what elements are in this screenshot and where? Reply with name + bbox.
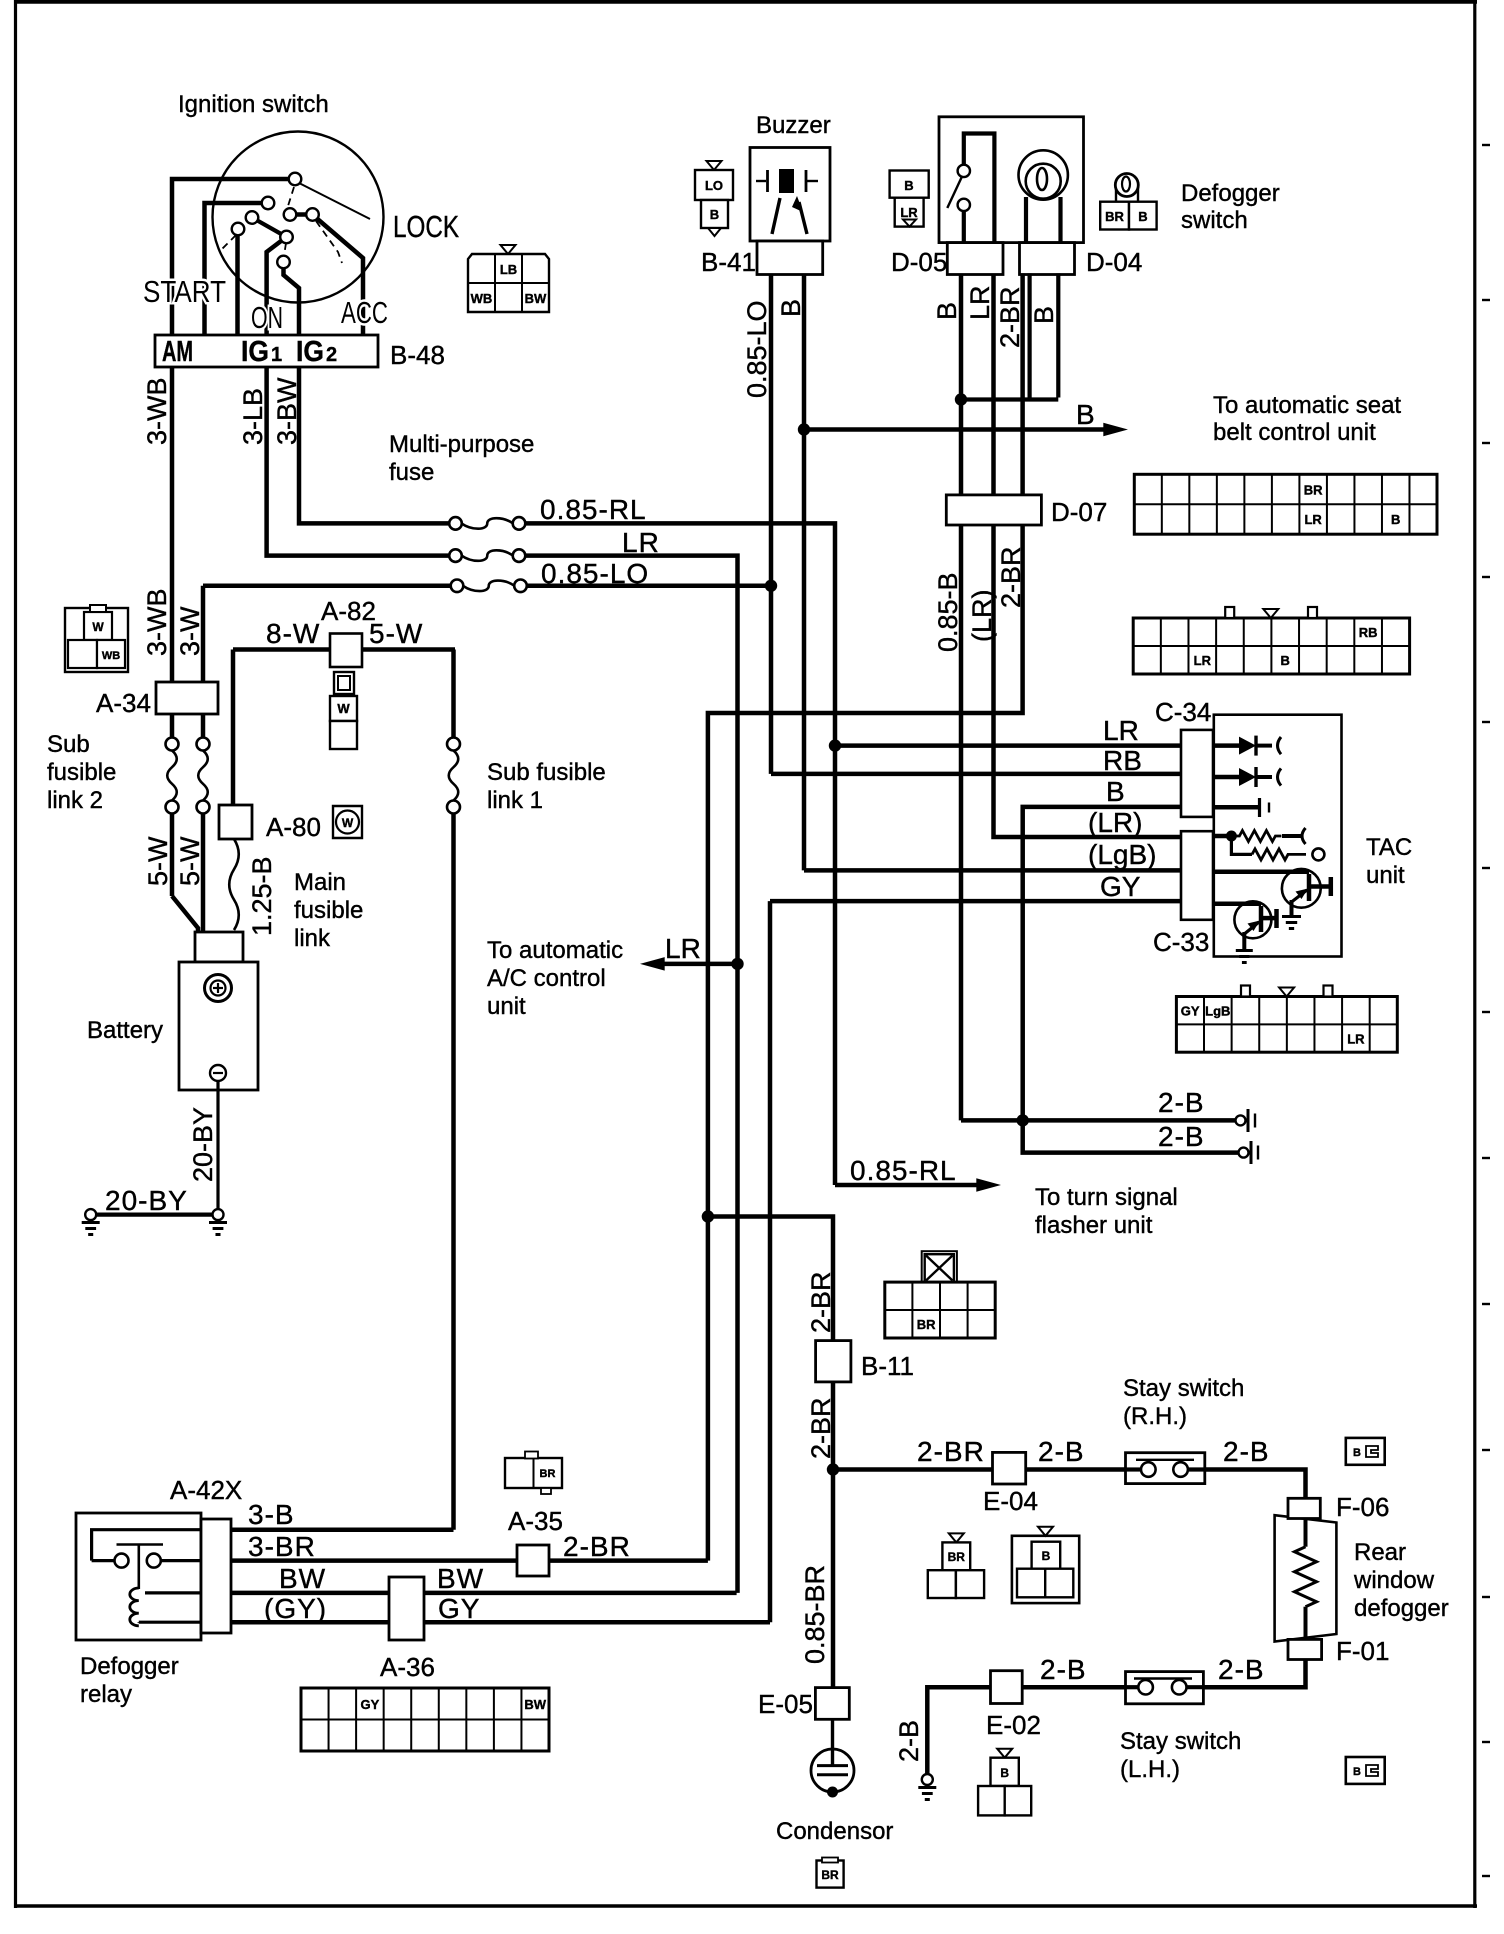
svg-text:BR: BR <box>821 1868 839 1882</box>
wire B feed to TAC <box>1023 807 1239 1153</box>
wire 3-B <box>231 1527 454 1532</box>
svg-text:BR: BR <box>1105 209 1124 224</box>
wire AM from ignition switch to B-48 <box>172 179 295 335</box>
svg-text:unit: unit <box>487 993 526 1020</box>
svg-text:link: link <box>294 925 331 952</box>
svg-text:To automatic seat: To automatic seat <box>1213 392 1401 419</box>
connector symbol BR bottom <box>817 1861 844 1888</box>
stay switch LH <box>1126 1672 1204 1704</box>
defogger switch contact bottom <box>958 199 970 211</box>
svg-text:5-W: 5-W <box>369 618 423 649</box>
wire 0.85-LO from fuse to trunk <box>527 584 771 589</box>
wire 3-W down from fuse corner to A-34 <box>201 586 206 682</box>
svg-text:D-05: D-05 <box>891 247 947 277</box>
condenser <box>831 1719 834 1765</box>
svg-text:Multi-purpose: Multi-purpose <box>389 431 534 458</box>
svg-text:A-42X: A-42X <box>170 1475 242 1505</box>
svg-text:F-06: F-06 <box>1336 1492 1389 1522</box>
svg-text:(LR): (LR) <box>1088 807 1142 838</box>
connector B-48 <box>155 335 378 367</box>
svg-text:2-B: 2-B <box>1038 1436 1085 1467</box>
transistor Q1 in TAC <box>1282 869 1321 908</box>
svg-text:2-BR: 2-BR <box>806 1397 836 1459</box>
svg-text:2-B: 2-B <box>1158 1087 1205 1118</box>
svg-text:3-BR: 3-BR <box>248 1531 316 1562</box>
svg-text:RB: RB <box>1359 625 1378 640</box>
wire 2-B stay switch RH to F-06 <box>1205 1470 1306 1499</box>
svg-text:Main: Main <box>294 869 346 896</box>
svg-text:LO: LO <box>705 178 723 193</box>
wire 2-B E-04 to stay switch RH <box>1026 1467 1126 1472</box>
connector C-34 <box>1181 730 1213 817</box>
svg-text:3-W: 3-W <box>175 606 205 656</box>
wire 2-B F-01 to stay switch LH <box>1203 1660 1305 1688</box>
svg-text:ACC: ACC <box>341 295 388 330</box>
svg-text:2-BR: 2-BR <box>563 1531 631 1562</box>
svg-text:A-35: A-35 <box>508 1506 563 1536</box>
svg-text:LR: LR <box>1347 1031 1365 1046</box>
svg-text:LOCK: LOCK <box>393 209 459 244</box>
svg-text:link 1: link 1 <box>487 787 543 814</box>
diode D2 in TAC <box>1214 775 1239 780</box>
wire 0.85-BR to E-05 <box>831 1470 836 1688</box>
svg-text:B-48: B-48 <box>390 340 445 370</box>
svg-text:E-05: E-05 <box>758 1689 813 1719</box>
wire GY <box>231 1620 770 1625</box>
svg-text:B: B <box>904 178 913 193</box>
ignition switch pointer line to LOCK <box>299 183 370 219</box>
svg-text:Stay switch: Stay switch <box>1123 1375 1244 1402</box>
buzzer capacitor symbol <box>756 180 766 182</box>
svg-text:START: START <box>143 274 226 309</box>
defogger switch contact top <box>964 134 995 243</box>
connector A-80 <box>219 805 252 839</box>
svg-text:3-WB: 3-WB <box>142 589 172 657</box>
defogger switch lamp <box>1018 150 1067 199</box>
svg-text:0.85-LO: 0.85-LO <box>541 558 649 589</box>
svg-text:LR: LR <box>665 933 701 964</box>
wire B loop from D-04 <box>1027 273 1031 397</box>
svg-text:B: B <box>1353 1766 1361 1778</box>
svg-text:2-B: 2-B <box>1218 1654 1265 1685</box>
svg-text:2-B: 2-B <box>1158 1121 1205 1152</box>
2-B upper ground terminal <box>1236 1115 1246 1125</box>
svg-text:3-LB: 3-LB <box>238 388 268 445</box>
ignition switch contacts <box>289 173 302 186</box>
connector A-42X bar <box>201 1519 231 1633</box>
svg-text:0.85-RL: 0.85-RL <box>850 1155 957 1186</box>
stay switch RH <box>1126 1453 1205 1484</box>
diode D1 in TAC <box>1214 743 1239 748</box>
wire B to automatic seat belt control unit <box>804 427 1114 432</box>
connector F-01 <box>1288 1639 1322 1659</box>
connector E-05 <box>815 1688 849 1720</box>
svg-text:Battery: Battery <box>87 1017 163 1044</box>
junction LR feed on 0.85-RL trunk <box>829 739 841 751</box>
svg-text:fusible: fusible <box>294 897 363 924</box>
wire ignition contact to B-48 (third) <box>235 232 240 335</box>
svg-text:link 2: link 2 <box>47 787 103 814</box>
svg-text:0.85-B: 0.85-B <box>933 572 963 652</box>
svg-text:Buzzer: Buzzer <box>756 112 831 139</box>
connector A-34 <box>156 682 218 714</box>
buzzer sounder symbol <box>772 198 780 234</box>
svg-text:To automatic: To automatic <box>487 937 623 964</box>
svg-text:ON: ON <box>251 300 283 335</box>
wire LgB feed to TAC <box>804 868 1184 873</box>
svg-text:0.85-BR: 0.85-BR <box>800 1565 830 1664</box>
svg-text:BR: BR <box>917 1317 936 1332</box>
svg-text:F-01: F-01 <box>1336 1636 1389 1666</box>
wire 2-BR from D-04 down <box>708 273 1023 1560</box>
svg-text:(LgB): (LgB) <box>1088 839 1156 870</box>
wire 2-B E-02 to stay switch LH <box>1022 1685 1125 1690</box>
wire IG2 <box>284 266 300 335</box>
wire 0.85-RL from fuse to trunk <box>526 523 836 1185</box>
ignition switch dashed positions <box>222 187 342 263</box>
svg-text:LR: LR <box>622 527 660 558</box>
connector pin A-82 <box>334 672 354 694</box>
svg-text:B-11: B-11 <box>861 1351 914 1381</box>
svg-text:Stay switch: Stay switch <box>1120 1728 1241 1755</box>
wire GY trunk <box>768 901 773 1622</box>
wire RB feed to TAC <box>771 772 1184 777</box>
connector symbol LB WB BW <box>501 245 516 254</box>
svg-text:A/C control: A/C control <box>487 965 606 992</box>
connector D-07 bar <box>946 495 1041 525</box>
connector symbol BC lower <box>1346 1757 1385 1784</box>
resistor network in TAC <box>1214 834 1232 839</box>
buzzer box <box>750 148 830 242</box>
connector C-33 <box>1181 831 1213 920</box>
junction E-04 branch <box>827 1463 839 1475</box>
svg-text:flasher unit: flasher unit <box>1035 1212 1153 1239</box>
svg-text:3-WB: 3-WB <box>142 378 172 446</box>
svg-text:defogger: defogger <box>1354 1595 1449 1622</box>
svg-text:unit: unit <box>1366 862 1405 889</box>
svg-text:Sub: Sub <box>47 731 90 758</box>
junction 0.85-LO trunk <box>765 580 777 592</box>
connector symbol BR above A-35 <box>505 1458 562 1488</box>
svg-text:C-34: C-34 <box>1155 697 1211 727</box>
svg-text:2-BR: 2-BR <box>996 546 1026 608</box>
svg-text:GY: GY <box>360 1697 379 1712</box>
connector A-36 <box>389 1577 424 1640</box>
svg-text:E-02: E-02 <box>986 1710 1041 1740</box>
wire 8-W 5-W <box>233 647 455 652</box>
svg-text:switch: switch <box>1181 207 1248 234</box>
wire BW <box>231 1591 737 1596</box>
wire 0.85-RL to turn signal flasher <box>835 1183 988 1188</box>
wire 0.85-LO buzzer to RB feed <box>769 275 774 774</box>
svg-text:1.25-B: 1.25-B <box>247 856 277 936</box>
wire 3-BW to fuse 1 <box>299 367 449 523</box>
svg-text:5-W: 5-W <box>175 836 205 886</box>
svg-text:IG: IG <box>296 336 324 368</box>
sub fusible link 2 left <box>170 714 175 738</box>
svg-text:(LR): (LR) <box>967 590 997 643</box>
wire B from buzzer <box>802 275 807 871</box>
wire 2-BR below B-11 <box>831 1382 836 1470</box>
ground B in TAC <box>1214 805 1258 810</box>
connector symbol lamp BR B <box>1116 188 1138 202</box>
svg-text:relay: relay <box>80 1681 132 1708</box>
relay coil wires <box>145 1591 201 1594</box>
svg-text:WB: WB <box>471 291 493 306</box>
svg-text:(R.H.): (R.H.) <box>1123 1403 1187 1430</box>
svg-text:LR: LR <box>1194 653 1212 668</box>
svg-text:AM: AM <box>162 336 193 368</box>
wire LR from fuse to trunk <box>526 556 738 1593</box>
svg-text:LB: LB <box>500 262 517 277</box>
connector symbol W <box>333 806 362 838</box>
connector E-02 <box>991 1671 1023 1704</box>
defogger switch lamp leads <box>1024 197 1028 243</box>
svg-text:BW: BW <box>279 1563 326 1594</box>
multi-purpose fuse 2 <box>449 549 462 562</box>
svg-text:A-80: A-80 <box>266 812 321 842</box>
svg-text:B-41: B-41 <box>701 247 756 277</box>
connector symbol BR mid <box>949 1533 964 1542</box>
connector A-35 <box>517 1545 549 1576</box>
svg-text:B: B <box>776 299 806 317</box>
svg-text:Defogger: Defogger <box>80 1653 179 1680</box>
svg-text:E-04: E-04 <box>983 1486 1038 1516</box>
svg-text:2-B: 2-B <box>894 1720 924 1762</box>
svg-text:B: B <box>1042 1549 1051 1563</box>
main fusible link wire 1.25-B <box>229 839 239 930</box>
svg-text:2: 2 <box>326 344 337 366</box>
svg-text:B: B <box>710 207 719 222</box>
svg-text:fusible: fusible <box>47 759 116 786</box>
wire 2-B E-02 to ground <box>927 1687 990 1774</box>
svg-text:LR: LR <box>965 285 995 320</box>
wire LR feed to TAC <box>835 743 1184 748</box>
transistor Q2 in TAC <box>1234 901 1271 938</box>
connector A-82 <box>330 634 362 668</box>
svg-text:2-BR: 2-BR <box>995 286 1025 348</box>
multi-purpose fuse 1 <box>449 517 462 530</box>
svg-text:GY: GY <box>1181 1003 1200 1018</box>
sub fusible link 1 <box>447 738 460 751</box>
ground left of battery <box>85 1209 96 1220</box>
svg-text:B: B <box>1138 209 1147 224</box>
svg-text:BR: BR <box>1304 482 1323 497</box>
svg-text:2-BR: 2-BR <box>917 1436 985 1467</box>
connector symbol B mid <box>1012 1536 1079 1603</box>
wire GY feed to TAC <box>770 899 1184 904</box>
svg-text:B: B <box>1391 512 1400 527</box>
svg-text:B: B <box>932 302 962 320</box>
svg-text:IG: IG <box>241 336 269 368</box>
resistor 2 in TAC <box>1231 836 1252 854</box>
connector F-06 <box>1288 1498 1320 1518</box>
svg-text:fuse: fuse <box>389 459 434 486</box>
wire ignition contact to B-48 (second) <box>205 203 269 335</box>
connector symbol LO B <box>707 161 722 170</box>
svg-text:8-W: 8-W <box>266 618 320 649</box>
svg-text:0.85-LO: 0.85-LO <box>742 300 772 398</box>
connector D-04 bar <box>1020 243 1075 275</box>
svg-text:window: window <box>1353 1567 1435 1594</box>
svg-text:2-B: 2-B <box>1040 1654 1087 1685</box>
svg-text:B: B <box>1029 306 1059 324</box>
svg-text:B: B <box>1106 776 1125 807</box>
svg-text:LR: LR <box>1304 512 1322 527</box>
svg-text:B: B <box>1281 653 1290 668</box>
svg-text:5-W: 5-W <box>143 836 173 886</box>
svg-text:D-07: D-07 <box>1051 497 1107 527</box>
svg-text:WB: WB <box>102 650 120 662</box>
svg-text:A-82: A-82 <box>321 596 376 626</box>
svg-text:Rear: Rear <box>1354 1539 1406 1566</box>
wire B from D-05 down (0.85-B) <box>959 275 964 1121</box>
ignition switch contact segment <box>252 218 287 238</box>
wire 2-B upper ground <box>961 1118 1236 1123</box>
svg-text:Ignition switch: Ignition switch <box>178 91 329 118</box>
wire 2-BR to E-04 <box>833 1467 993 1472</box>
svg-text:(GY): (GY) <box>264 1593 327 1624</box>
svg-text:BW: BW <box>524 1697 546 1712</box>
connector symbol B lower <box>997 1749 1012 1758</box>
svg-text:To turn signal: To turn signal <box>1035 1184 1178 1211</box>
svg-text:A-36: A-36 <box>380 1652 435 1682</box>
defogger switch blade <box>947 177 961 208</box>
wire 3-BR to A-35 <box>231 1558 517 1563</box>
junction LR to AC unit <box>731 958 743 970</box>
svg-text:2-B: 2-B <box>1223 1436 1270 1467</box>
connector symbol BC upper <box>1346 1438 1385 1465</box>
junction B loop <box>955 393 967 405</box>
battery connector bar <box>195 932 243 962</box>
svg-text:1: 1 <box>271 344 282 366</box>
sub fusible link 2 right <box>201 714 206 738</box>
svg-text:Defogger: Defogger <box>1181 180 1280 207</box>
connector grid defogger switch <box>1133 618 1409 674</box>
ground wire 20-BY <box>96 1212 213 1216</box>
svg-text:20-BY: 20-BY <box>105 1185 188 1216</box>
svg-text:A-34: A-34 <box>96 688 151 718</box>
2-B lower ground terminal <box>1239 1148 1249 1158</box>
svg-text:20-BY: 20-BY <box>188 1107 218 1182</box>
junction 2-BR trunk <box>702 1210 714 1222</box>
svg-text:C-33: C-33 <box>1153 927 1209 957</box>
svg-text:belt control unit: belt control unit <box>1213 419 1376 446</box>
svg-text:BR: BR <box>540 1468 556 1480</box>
connector symbol W WB <box>65 608 128 672</box>
svg-text:Sub fusible: Sub fusible <box>487 759 606 786</box>
ground below battery <box>213 1209 224 1220</box>
wire to fuse 3 <box>203 584 451 589</box>
defogger switch box <box>939 117 1084 243</box>
svg-text:B: B <box>1000 1766 1009 1780</box>
svg-text:GY: GY <box>438 1593 480 1624</box>
multi-purpose fuse 3 <box>451 580 464 593</box>
svg-text:W: W <box>342 816 354 830</box>
wire 3-WB down to A-34 <box>170 367 175 682</box>
connector symbol B LR <box>890 171 929 198</box>
connector B-11 <box>816 1341 851 1382</box>
relay coil <box>130 1588 139 1626</box>
ignition switch contact bar <box>290 212 313 217</box>
svg-text:LR: LR <box>1103 715 1139 746</box>
svg-text:W: W <box>337 701 350 716</box>
connector grid TAC unit <box>1176 997 1397 1053</box>
svg-text:(L.H.): (L.H.) <box>1120 1756 1180 1783</box>
svg-text:3-B: 3-B <box>248 1499 295 1530</box>
svg-text:D-04: D-04 <box>1086 247 1142 277</box>
connector D-05 bar <box>947 243 1003 275</box>
svg-text:TAC: TAC <box>1366 834 1412 861</box>
svg-text:GY: GY <box>1100 871 1141 902</box>
junction B seat belt <box>798 423 810 435</box>
wire IG1 <box>267 238 285 335</box>
svg-text:W: W <box>92 620 104 634</box>
svg-text:Condensor: Condensor <box>776 1818 893 1845</box>
svg-text:B: B <box>1353 1447 1361 1459</box>
junction 2-B <box>1017 1114 1029 1126</box>
wire 2-BR branch to B-11 <box>708 1217 833 1341</box>
relay armature <box>117 1543 164 1546</box>
svg-text:B: B <box>1076 399 1095 430</box>
defogger relay box <box>76 1513 201 1640</box>
ground E-02 wire <box>922 1774 933 1785</box>
relay internal top wire <box>92 1530 201 1561</box>
wire 2-BR from A-35 to trunk <box>549 1558 708 1563</box>
svg-text:BR: BR <box>948 1550 966 1564</box>
connector B-41 bar <box>757 241 823 275</box>
svg-text:RB: RB <box>1103 745 1142 776</box>
connector grid A-36 <box>301 1688 549 1751</box>
TAC unit box <box>1214 715 1342 957</box>
wire LR to automatic AC control unit <box>651 962 738 967</box>
connector E-04 <box>993 1452 1026 1484</box>
wire ACC <box>314 216 363 335</box>
svg-text:LgB: LgB <box>1205 1003 1230 1018</box>
connector grid seat belt unit <box>1134 474 1437 534</box>
svg-text:LR: LR <box>900 205 918 220</box>
connector grid B-11 unit <box>922 1251 957 1285</box>
battery <box>179 962 258 1090</box>
svg-text:2-BR: 2-BR <box>806 1271 836 1333</box>
svg-text:BW: BW <box>437 1563 484 1594</box>
svg-text:BW: BW <box>525 291 547 306</box>
ignition switch circle <box>213 132 384 303</box>
relay switch <box>92 1559 114 1562</box>
rear window defogger <box>1275 1515 1337 1641</box>
svg-text:0.85-RL: 0.85-RL <box>540 494 647 525</box>
wire LR from D-05 down <box>994 275 1185 838</box>
wire 20-BY battery to ground <box>216 1081 219 1209</box>
wire 3-LB to fuse 2 <box>267 367 449 556</box>
